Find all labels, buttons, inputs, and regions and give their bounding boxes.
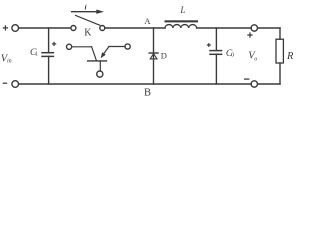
svg-text:1: 1 (35, 52, 38, 58)
svg-text:in: in (7, 59, 12, 65)
svg-text:o: o (254, 57, 257, 63)
svg-text:K: K (84, 28, 92, 39)
svg-text:0: 0 (231, 53, 234, 59)
svg-text:R: R (286, 51, 294, 62)
svg-text:i: i (85, 2, 88, 11)
svg-text:L: L (179, 5, 185, 15)
svg-text:D: D (161, 50, 167, 60)
svg-text:B: B (144, 87, 151, 98)
svg-text:A: A (144, 16, 151, 26)
